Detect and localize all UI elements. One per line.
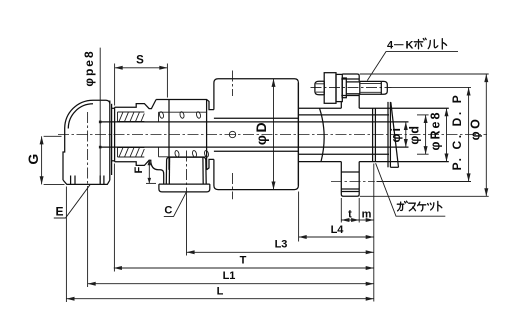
rotor sleeve OD bottom [299,161,342,163]
flange top bolt hole walls [341,78,359,80]
K bolt threaded section [360,80,382,82]
dimension phi i [405,122,407,147]
dimension m [359,219,374,221]
svg-text:φi: φi [389,126,403,142]
phi D disc outline [214,79,299,190]
cap (stuffing nut) left face [114,107,116,162]
elbow inner arc [68,104,93,129]
elbow bottom face with chamfers [63,180,110,184]
dimension L4 [298,192,300,242]
tie rod circle marker [229,131,235,137]
elbow right face inner line [111,104,113,175]
dimension G [41,136,43,184]
kana small TSU of gasket label [428,203,434,210]
roll face lines [372,108,374,162]
dimension L [65,187,67,303]
bolt axis centerline [311,86,392,88]
K bolt shank [346,81,360,83]
K bolt washer [336,74,342,101]
inner duct phi i lines [100,121,408,123]
bottom bolt circle centerline [331,181,375,183]
dimension t [341,219,359,221]
dimension phi O [485,74,487,196]
dimension F [148,160,150,184]
tie rod hidden centerline bottom [232,173,234,199]
dimension phi D internal [273,79,275,190]
kana TO of gasket label [438,201,442,211]
K bolt lock washer [342,78,346,98]
rotor housing top edge [156,100,214,110]
svg-text:4: 4 [387,40,394,52]
C cap nut hex body [166,157,206,184]
svg-text:S: S [136,55,144,67]
spring band top boundaries [159,111,207,113]
elbow right face [109,101,111,181]
dimension T [113,164,115,272]
svg-text:L3: L3 [275,239,288,251]
svg-text:E: E [55,205,63,219]
nipple visible between elbow and cap [112,107,115,109]
svg-text:φpe8: φpe8 [82,49,96,86]
nipple thread hatch top band [118,111,145,113]
cap top profile [115,100,157,109]
sleeve weld S-curve [320,108,325,161]
dimension t m extension lines [340,198,342,223]
kana GA of gasket label [397,201,407,211]
svg-text:m: m [362,209,372,221]
K bolt stud end cap [315,81,324,95]
roll journal outline with break [391,102,399,167]
nipple thread hatch bottom band [118,147,145,149]
K bolt hex nut [324,73,336,104]
phi O extension bottom [360,195,489,197]
dimension phi d [425,115,427,154]
inner pipe phi d lines [214,117,299,119]
K bolt chamfered end [381,81,387,94]
leader line of gasket label [376,163,446,216]
main centerline axis [58,134,487,136]
svg-text:φRe8: φRe8 [429,111,443,151]
gasket [387,102,389,167]
phi D disc right face [297,83,299,186]
kana RU of bolt label [428,40,438,49]
kana KE of gasket label [418,202,426,211]
svg-text:L1: L1 [223,270,236,282]
dimension phi pe8 line [99,48,101,185]
svg-text:K: K [406,40,414,52]
spigot OD top to Re8 extension [359,107,449,109]
svg-text:C: C [164,205,172,217]
svg-text:φd: φd [408,124,422,145]
PCD extension top [388,86,471,88]
flange bottom bolt hole walls [341,171,359,173]
kana BO of bolt label [414,38,426,49]
tie rod hidden centerline top [232,71,234,97]
flange plate [340,102,342,109]
svg-text:L: L [217,286,224,298]
body bottom fillet to nut boss [151,160,164,184]
svg-text:L4: L4 [331,224,345,236]
svg-text:T: T [240,255,247,267]
C nut centerline [186,151,188,199]
spring coil loops top [159,111,201,118]
svg-text:φD: φD [253,120,269,145]
svg-text:t: t [348,209,352,221]
phi pe8 dot terminators [99,121,102,124]
elbow E outer arc [65,100,93,128]
spring band bottom boundaries [159,156,207,158]
svg-text:F: F [133,167,145,174]
elbow left face [63,129,65,181]
dimension L3 [186,198,188,256]
phi O extension top [360,73,489,75]
kana SU of gasket label [409,203,416,211]
rotor sleeve OD top [299,107,342,109]
cap bottom profile [115,160,152,165]
leader line of 4-K bolt label [367,52,458,81]
kana TO of bolt label [442,39,446,49]
dimension S [115,67,168,69]
C nut bottom collar [159,184,210,192]
housing right end vertical [206,100,208,170]
spring coil loops bottom [174,150,209,157]
rotor edge vertical [168,100,170,170]
svg-text:G: G [25,154,41,165]
elbow bottom port thread lines [70,176,72,185]
dimension L1 [87,192,89,287]
PCD extension bottom [377,181,472,183]
label gasket with leader [397,201,442,211]
C nut face division lines [168,158,170,185]
svg-text:φO: φO [469,117,483,141]
housing right lower profile [207,159,214,169]
svg-text:P. C. D. P: P. C. D. P [450,93,464,171]
elbow leg centerline [87,112,89,192]
dimension PCD [468,87,470,181]
elbow top face [93,100,110,103]
dimension phi Re8 [446,108,448,161]
